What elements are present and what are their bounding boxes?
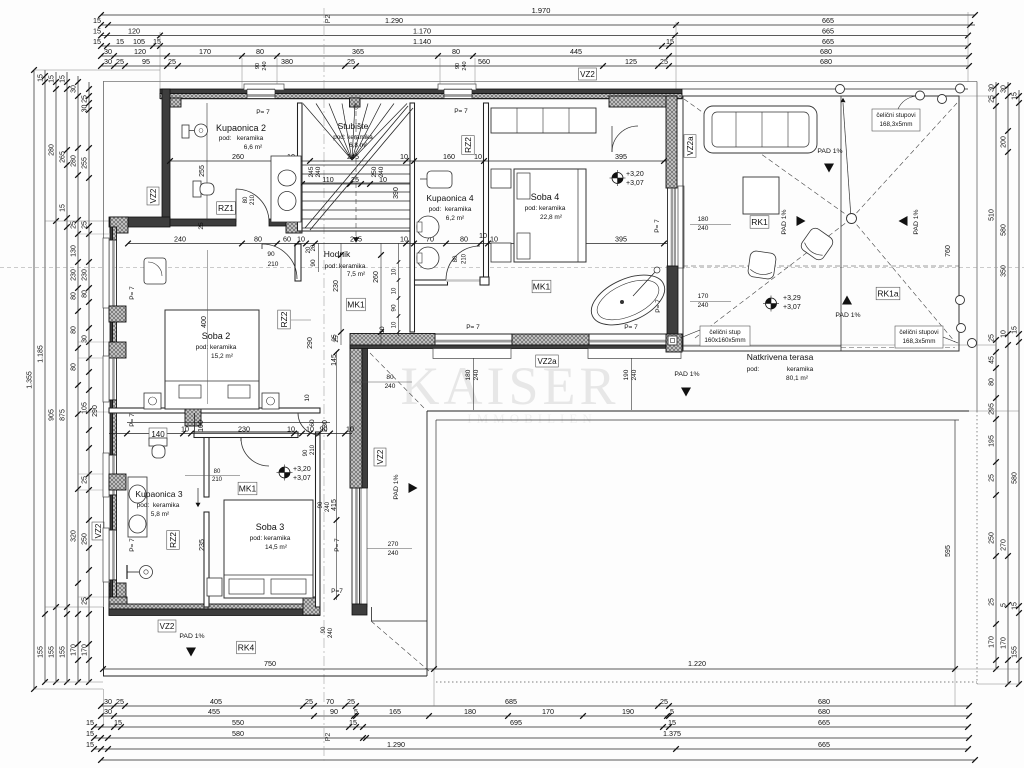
svg-text:RK1: RK1	[751, 217, 768, 227]
svg-text:90: 90	[320, 424, 328, 433]
terrace roof dashed diagonal BR	[852, 219, 956, 343]
svg-text:25: 25	[116, 697, 124, 706]
left wall sill 2	[103, 356, 109, 402]
svg-text:80: 80	[82, 290, 89, 298]
svg-text:80: 80	[71, 363, 78, 371]
svg-text:25: 25	[82, 221, 89, 229]
extension line window1 right	[276, 58, 278, 88]
svg-text:400: 400	[201, 316, 208, 328]
svg-text:240: 240	[328, 627, 334, 638]
svg-text:VZ2: VZ2	[94, 523, 103, 538]
wall below Soba 2	[109, 408, 320, 413]
svg-text:240: 240	[473, 369, 480, 380]
right exterior wall window	[667, 188, 669, 266]
extension line bottom dim 1	[433, 669, 435, 706]
bottom wall right pier	[303, 597, 320, 615]
Kupaonica 2 toilet	[193, 181, 201, 197]
svg-text:PAD 1%: PAD 1%	[835, 312, 860, 319]
svg-text:90: 90	[310, 259, 317, 267]
svg-text:255: 255	[199, 165, 206, 177]
svg-text:110: 110	[322, 175, 333, 184]
svg-text:90: 90	[391, 304, 398, 312]
svg-text:P2: P2	[325, 733, 332, 742]
label RK1	[750, 216, 769, 229]
svg-text:15: 15	[114, 718, 122, 727]
svg-text:6,2 m²: 6,2 m²	[446, 215, 465, 222]
extension line window1 left	[241, 58, 243, 88]
svg-text:80: 80	[243, 196, 249, 203]
svg-text:210: 210	[310, 444, 316, 455]
right dimension line 200-580-270	[1007, 82, 1009, 684]
svg-text:180: 180	[698, 216, 709, 223]
steel column circle top right 2	[938, 95, 947, 104]
Kupaonica 3 vanity	[128, 477, 147, 537]
bottom-right corner of house	[352, 604, 367, 615]
svg-text:25: 25	[198, 222, 205, 230]
left wall pier 2	[109, 474, 126, 490]
svg-text:10: 10	[181, 424, 189, 433]
svg-text:580: 580	[1001, 224, 1008, 236]
bottom-left corner pier	[109, 597, 127, 615]
Kupaonica 2 vanity cabinet	[271, 156, 301, 222]
label RZ2 hodnik rotated	[278, 310, 291, 329]
svg-text:140: 140	[151, 430, 165, 439]
svg-text:60: 60	[283, 234, 291, 243]
svg-text:230: 230	[71, 269, 78, 281]
svg-text:10: 10	[379, 175, 387, 184]
wall between Kupaonica 3 and Soba 3	[204, 434, 209, 497]
dashed diagonal top VZ2 corner	[370, 353, 426, 410]
svg-text:čelični stupovi: čelični stupovi	[899, 329, 938, 336]
celicni stup box left	[700, 326, 750, 346]
svg-text:10: 10	[474, 152, 482, 161]
svg-text:80: 80	[254, 234, 262, 243]
svg-text:875: 875	[60, 409, 67, 421]
Soba 4 wardrobe door arc	[612, 126, 638, 152]
svg-text:80: 80	[71, 326, 78, 334]
svg-text:230: 230	[238, 424, 250, 433]
drain symbol hodnik	[279, 467, 290, 478]
Soba 3 right wall	[316, 432, 321, 607]
svg-text:15: 15	[60, 204, 67, 212]
svg-text:155: 155	[49, 646, 56, 658]
svg-text:1.375: 1.375	[663, 729, 681, 738]
svg-text:25: 25	[660, 697, 668, 706]
svg-text:30: 30	[104, 697, 112, 706]
terrace roof dashed diagonal BL	[695, 219, 852, 339]
svg-text:230: 230	[333, 280, 340, 292]
svg-text:125: 125	[625, 57, 637, 66]
wall label VZ2 upper-left	[147, 187, 159, 205]
bottom exterior wall hatch band	[109, 604, 320, 609]
svg-text:1.355: 1.355	[27, 371, 34, 389]
svg-text:P= 7: P= 7	[334, 538, 341, 552]
svg-text:Soba 2: Soba 2	[202, 331, 231, 341]
svg-text:15,2 m²: 15,2 m²	[211, 353, 234, 360]
VZ2 hatched wall right of Soba 3	[350, 345, 362, 488]
svg-text:90: 90	[255, 63, 261, 69]
svg-text:350: 350	[1001, 265, 1008, 277]
svg-text:260: 260	[373, 271, 380, 283]
svg-text:RZ1: RZ1	[218, 203, 234, 213]
svg-text:155: 155	[60, 646, 67, 658]
svg-text:RZ2: RZ2	[168, 532, 178, 548]
extension line building right	[675, 22, 677, 89]
svg-text:22,8 m²: 22,8 m²	[540, 214, 563, 221]
svg-text:PAD 1%: PAD 1%	[674, 371, 699, 378]
lower terrace right line	[954, 420, 956, 669]
svg-text:VZ2a: VZ2a	[686, 136, 695, 156]
top wall window 2	[438, 84, 476, 90]
label MK1 near Soba 3	[238, 482, 257, 495]
steel column circle top corner	[956, 84, 965, 93]
svg-text:10: 10	[304, 394, 311, 402]
svg-text:25: 25	[660, 57, 668, 66]
svg-text:15: 15	[1012, 326, 1019, 334]
svg-text:10: 10	[379, 326, 386, 334]
svg-text:240: 240	[462, 61, 468, 70]
Kupaonica 2 basin upper	[278, 170, 296, 186]
svg-text:P= 7: P= 7	[129, 286, 136, 300]
celicni stupovi box top	[872, 109, 920, 131]
Soba 2 bedside table left	[144, 393, 161, 409]
svg-text:680: 680	[818, 697, 830, 706]
dim 255 vertical	[206, 103, 208, 221]
svg-text:405: 405	[210, 697, 222, 706]
pier below Kupaonica 2	[286, 217, 302, 233]
pier at jog corner	[110, 217, 128, 233]
svg-text:5: 5	[670, 707, 674, 716]
top dimension row 1.970	[101, 14, 975, 16]
svg-text:168,3x5mm: 168,3x5mm	[903, 338, 936, 345]
left wall pier 3	[109, 583, 126, 599]
svg-text:210: 210	[212, 477, 223, 483]
lower terrace inner top line	[436, 419, 959, 421]
svg-text:PAD 1%: PAD 1%	[179, 633, 204, 640]
svg-text:245: 245	[350, 234, 362, 243]
svg-text:145: 145	[331, 354, 338, 366]
left wall sill 1	[103, 238, 109, 308]
terrace divider line	[840, 96, 842, 351]
svg-text:320: 320	[71, 530, 78, 542]
svg-text:pod: keramika: pod: keramika	[250, 535, 291, 542]
svg-text:PAD 1%: PAD 1%	[817, 148, 842, 155]
label RZ2 Kupaonica 3	[167, 531, 180, 550]
svg-text:170: 170	[542, 707, 554, 716]
interior wall below Kupaonica 2	[170, 219, 236, 226]
svg-text:260: 260	[232, 152, 244, 161]
left wall segment 3	[110, 400, 113, 455]
extension line left jog	[45, 220, 109, 222]
extension line left rk4 bottom	[34, 688, 103, 690]
svg-text:15: 15	[93, 26, 101, 35]
svg-text:5: 5	[1001, 603, 1008, 607]
extension line window2 right	[474, 58, 476, 88]
extension line right terrace mid	[682, 344, 996, 346]
dimension line 750/1.220	[103, 668, 955, 670]
svg-text:25: 25	[82, 476, 89, 484]
svg-text:VZ2: VZ2	[149, 188, 158, 203]
svg-text:665: 665	[822, 16, 834, 25]
svg-text:170: 170	[199, 47, 211, 56]
svg-text:1.170: 1.170	[413, 26, 431, 35]
label MK1 right	[532, 280, 551, 293]
svg-text:105: 105	[133, 37, 145, 46]
svg-text:+3,29: +3,29	[783, 295, 801, 302]
top dimension row 1.290/665	[101, 24, 975, 26]
RK4 dashed diagonal	[371, 621, 429, 671]
svg-text:15: 15	[49, 75, 56, 83]
svg-text:25: 25	[347, 57, 355, 66]
svg-text:pod: keramika: pod: keramika	[196, 344, 237, 351]
sofa	[704, 106, 817, 153]
svg-text:KAISER: KAISER	[400, 356, 619, 416]
extension line left wall top	[34, 69, 160, 71]
svg-text:170: 170	[1001, 637, 1008, 649]
svg-text:290: 290	[92, 405, 99, 417]
terrace roof dashed diagonal TR	[852, 103, 958, 219]
extension line right terrace top	[959, 95, 996, 97]
left wall segment 1	[110, 227, 113, 240]
svg-text:Soba 3: Soba 3	[256, 522, 285, 532]
svg-text:295: 295	[989, 403, 996, 415]
svg-text:250: 250	[82, 533, 89, 545]
svg-text:MK1: MK1	[533, 282, 551, 292]
svg-text:45: 45	[989, 356, 996, 364]
bottom dimension row 15-580-1.375	[94, 737, 969, 739]
door RZ1 arc	[236, 189, 269, 222]
interior wall below Kupaonica 2 right part	[269, 219, 289, 226]
Soba 2 centre reference line	[207, 250, 209, 404]
svg-text:80: 80	[453, 255, 459, 262]
svg-text:665: 665	[818, 740, 830, 749]
svg-text:20: 20	[311, 244, 317, 251]
svg-text:30: 30	[104, 57, 112, 66]
Soba 3 bed	[224, 500, 313, 598]
top dimension row 30-120-170-80-365-80-445-680	[101, 55, 969, 57]
svg-text:IMMOBILIEN: IMMOBILIEN	[467, 411, 596, 426]
top dimension row 30-25-95-25-380-25-560-125-25-680	[101, 65, 969, 67]
svg-text:160x160x5mm: 160x160x5mm	[704, 337, 745, 344]
drain symbol Soba 4	[612, 173, 623, 184]
celicni stupovi box bottom right	[895, 326, 943, 348]
svg-text:25: 25	[82, 597, 89, 605]
door arc Soba 2	[262, 244, 297, 279]
Soba 2 armchair	[144, 258, 166, 284]
svg-text:1.185: 1.185	[38, 345, 45, 363]
Soba 3 bedside table	[207, 578, 222, 596]
extension line left bottom wall	[45, 606, 103, 608]
right exterior wall lower segment	[667, 266, 678, 336]
staircase break line	[305, 106, 408, 228]
left wall pier 1a	[109, 306, 126, 322]
svg-text:270: 270	[388, 541, 399, 548]
svg-text:120: 120	[128, 26, 140, 35]
svg-text:195: 195	[989, 435, 996, 447]
corner hatch top-right horizontal	[609, 96, 677, 107]
roof overhang line top	[103, 81, 977, 83]
VZ2a corner segment	[667, 334, 682, 349]
svg-text:240: 240	[385, 383, 396, 390]
extension line right terrace bottom	[955, 668, 1019, 670]
door arc Kupaonica 4	[446, 246, 480, 280]
terrace bottom inner dashed line	[841, 347, 955, 349]
svg-text:pod: keramika: pod: keramika	[137, 502, 180, 509]
svg-text:10: 10	[297, 234, 305, 243]
left wall sill 4	[103, 528, 109, 582]
corner hatch top-right vertical	[666, 96, 677, 188]
pier below Soba 2	[185, 408, 201, 426]
terrace top line outer	[682, 88, 968, 90]
bathtub	[584, 265, 672, 335]
svg-text:P= 7: P= 7	[129, 413, 136, 427]
svg-text:P=7: P=7	[331, 588, 343, 595]
svg-text:255: 255	[82, 157, 89, 169]
svg-text:30: 30	[104, 707, 112, 716]
svg-text:560: 560	[478, 57, 490, 66]
svg-text:15: 15	[1012, 602, 1019, 610]
svg-text:30: 30	[82, 335, 89, 343]
svg-text:665: 665	[818, 718, 830, 727]
svg-text:+3,07: +3,07	[783, 304, 801, 311]
svg-text:100: 100	[198, 420, 205, 432]
svg-text:25: 25	[82, 95, 89, 103]
svg-text:P= 7: P= 7	[654, 219, 661, 233]
door arc Soba 3	[241, 438, 269, 466]
extension line right dotted bottom	[977, 683, 1019, 685]
label RK1a	[876, 287, 900, 300]
left dimension line 80s	[77, 76, 79, 682]
svg-text:10: 10	[1001, 330, 1008, 338]
svg-text:80: 80	[256, 47, 264, 56]
svg-text:+3,20: +3,20	[626, 171, 644, 178]
staircase treads	[302, 164, 410, 166]
door arc lower hall	[298, 413, 320, 435]
Soba 4 wardrobe	[491, 108, 596, 133]
svg-text:665: 665	[822, 37, 834, 46]
svg-text:170: 170	[82, 644, 89, 656]
top wall window 1	[244, 84, 284, 90]
dim line stairs 245-10-160	[310, 160, 667, 162]
label RK4	[237, 641, 256, 654]
svg-text:14,5 m²: 14,5 m²	[265, 544, 288, 551]
VZ2a window 1	[435, 333, 512, 335]
svg-text:580: 580	[1012, 472, 1019, 484]
terrace junction circle	[847, 214, 857, 224]
chair 1	[799, 226, 835, 262]
svg-text:pod: keramika: pod: keramika	[429, 206, 472, 213]
Soba 3 right window	[351, 486, 353, 604]
svg-text:30: 30	[71, 85, 78, 93]
svg-text:750: 750	[264, 659, 276, 668]
svg-text:6,8 m²: 6,8 m²	[349, 142, 367, 149]
svg-text:210: 210	[250, 194, 256, 205]
svg-text:1.140: 1.140	[413, 37, 431, 46]
svg-text:10: 10	[392, 321, 398, 328]
svg-text:PAD 1%: PAD 1%	[913, 209, 920, 234]
left wall label VZ2	[92, 522, 104, 540]
svg-text:15: 15	[86, 740, 94, 749]
svg-text:130: 130	[71, 245, 78, 257]
top exterior wall hatch band	[160, 94, 682, 99]
hodnik vertical dim 230-25	[340, 243, 342, 345]
Kupaonica 4 basin 1	[417, 216, 439, 238]
svg-text:P= 7: P= 7	[655, 299, 662, 313]
svg-text:10: 10	[392, 268, 398, 275]
svg-text:7,5 m²: 7,5 m²	[347, 271, 366, 278]
svg-text:25: 25	[71, 221, 78, 229]
svg-text:RZ2: RZ2	[463, 137, 473, 153]
svg-text:pod: keramika: pod: keramika	[525, 205, 566, 212]
left wall segment 4	[110, 495, 113, 530]
svg-text:680: 680	[820, 57, 832, 66]
svg-text:VZ2: VZ2	[376, 449, 385, 464]
svg-text:280: 280	[71, 155, 78, 167]
RK4 corner step	[371, 607, 373, 621]
svg-text:680: 680	[818, 707, 830, 716]
svg-text:90: 90	[321, 626, 327, 633]
dim line stairs 110-25-10	[302, 183, 410, 185]
svg-text:265: 265	[60, 151, 67, 163]
svg-text:P= 7: P= 7	[454, 108, 468, 115]
closet divider vertical	[194, 413, 196, 437]
staircase winder fan	[303, 104, 352, 161]
right wall window sill	[678, 186, 684, 268]
VZ2a concrete band	[350, 345, 682, 349]
svg-text:240: 240	[315, 166, 322, 177]
svg-text:P= 7: P= 7	[256, 109, 270, 116]
Kupaonica 4 basin 2	[417, 247, 439, 269]
svg-text:90: 90	[455, 63, 461, 69]
Kupaonica 4 bottom wall right stub	[480, 277, 489, 285]
top exterior wall dark band	[160, 89, 682, 94]
chair 2	[747, 250, 776, 279]
svg-text:Natkrivena terasa: Natkrivena terasa	[747, 352, 814, 362]
svg-text:240: 240	[388, 550, 399, 557]
svg-text:RK1a: RK1a	[877, 289, 899, 299]
hodnik vertical dim 10-10-90-10	[398, 243, 400, 336]
left wall segment 2	[110, 322, 113, 342]
svg-text:10: 10	[287, 424, 295, 433]
svg-text:155: 155	[1012, 646, 1019, 658]
svg-text:25: 25	[331, 334, 338, 342]
Soba 3 right window sill	[361, 484, 367, 607]
pier below top wall at stairwell	[350, 98, 361, 107]
left wall window 1	[108, 240, 110, 306]
left dimension line 875	[66, 72, 68, 682]
svg-text:pod: keramika: pod: keramika	[325, 263, 366, 270]
svg-text:665: 665	[822, 26, 834, 35]
svg-text:čelični stup: čelični stup	[709, 329, 741, 336]
svg-text:25: 25	[351, 175, 359, 184]
svg-text:240: 240	[631, 369, 638, 380]
hodnik west wall stub	[295, 244, 301, 281]
extension line top-left corner	[159, 32, 161, 89]
left dimension line 905	[55, 72, 57, 682]
svg-text:595: 595	[945, 545, 952, 557]
svg-text:15: 15	[93, 16, 101, 25]
svg-text:155: 155	[38, 646, 45, 658]
svg-text:280: 280	[49, 144, 56, 156]
roof overhang line left	[103, 82, 105, 677]
svg-text:210: 210	[462, 253, 468, 264]
svg-text:170: 170	[698, 293, 709, 300]
Soba 4 bed	[514, 169, 586, 262]
Kupaonica 2 basin lower	[278, 192, 296, 211]
left dimension line 255-230	[88, 82, 90, 682]
svg-text:235: 235	[199, 539, 206, 551]
Kupaonica 3 toilet	[149, 438, 167, 446]
